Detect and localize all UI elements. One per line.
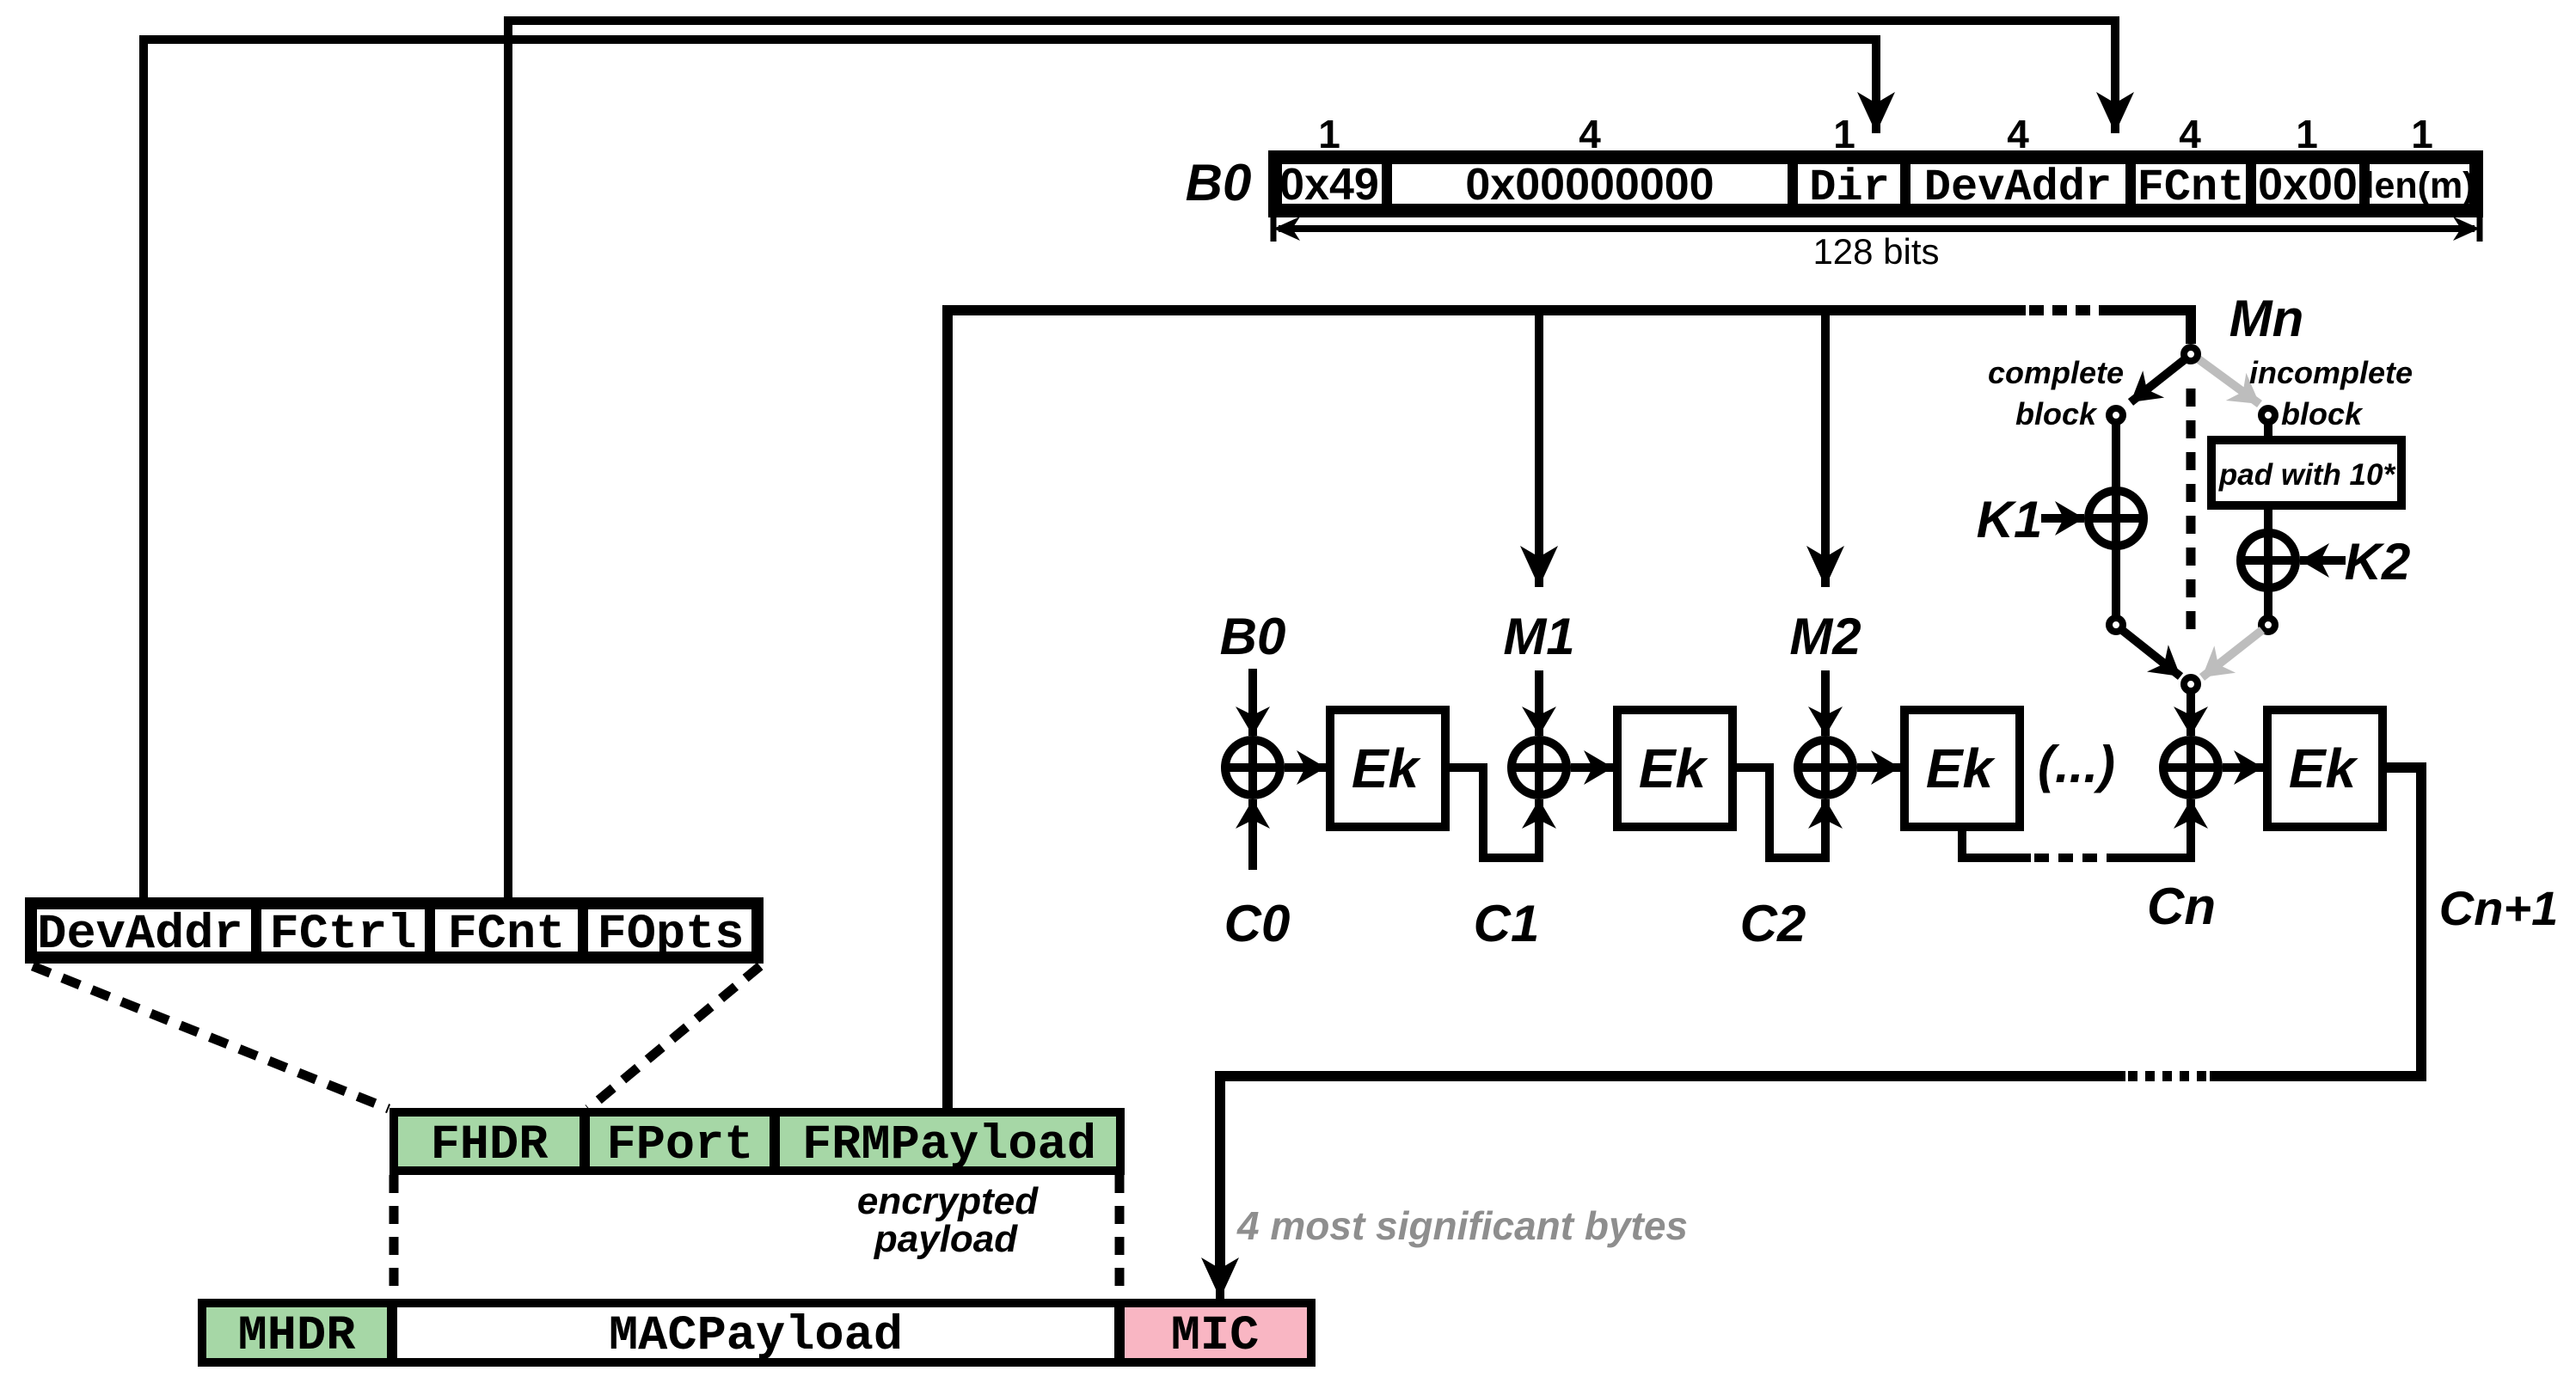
svg-text:C0: C0 — [1224, 895, 1291, 952]
B0 block outer box — [1275, 157, 2476, 211]
pad with 10* box — [2211, 440, 2401, 505]
arrow merge node into xor4 — [2187, 692, 2195, 736]
svg-text:MHDR: MHDR — [238, 1309, 357, 1364]
xor2 — [1512, 740, 1567, 795]
svg-text:M1: M1 — [1503, 608, 1574, 665]
svg-text:MACPayload: MACPayload — [609, 1309, 903, 1364]
dashed drop left — [389, 1175, 399, 1299]
arrow xor2 to Ek2 — [1571, 763, 1613, 772]
xor K1 — [2088, 491, 2144, 546]
svg-text:4: 4 — [2179, 112, 2201, 156]
branch incomplete to merge node (gray) — [2202, 630, 2262, 677]
svg-text:1: 1 — [2411, 112, 2433, 156]
feedback Cn wire Ek3 to xor4 — [1962, 827, 2031, 858]
divider FCnt|0x00 — [2246, 155, 2256, 213]
svg-text:C2: C2 — [1740, 895, 1806, 952]
distribution line right end to Mn — [2113, 310, 2191, 344]
divider FHDR|FPort — [580, 1112, 590, 1171]
xor K2 — [2241, 533, 2296, 588]
svg-text:block: block — [2015, 396, 2098, 431]
divider 0x00000000|Dir — [1788, 155, 1798, 213]
wire pad box to xor K2 — [2264, 505, 2272, 530]
svg-text:Ek: Ek — [1639, 737, 1709, 799]
dashed gap on distribution line — [2029, 305, 2115, 315]
svg-text:Ek: Ek — [1926, 737, 1996, 799]
128 bits dimension line — [1271, 217, 1277, 242]
MACPayload fields row (green) — [394, 1112, 1120, 1171]
svg-text:0x00000000: 0x00000000 — [1465, 160, 1714, 210]
svg-text:1: 1 — [1318, 112, 1340, 156]
node below K1 — [2109, 618, 2123, 632]
message distribution line — [948, 310, 2026, 1112]
svg-text:1: 1 — [2296, 112, 2318, 156]
svg-text:128 bits: 128 bits — [1812, 231, 1939, 272]
divider 0x49|0x00000000 — [1382, 155, 1392, 213]
node incomplete — [2261, 408, 2275, 422]
divider FCtrl|FCnt — [425, 902, 435, 959]
svg-text:FOpts: FOpts — [597, 908, 744, 963]
branch complete to merge node — [2122, 630, 2180, 676]
arrow C0 up into xor1 — [1248, 799, 1257, 870]
Cn+1 output wire — [2210, 768, 2421, 1076]
svg-text:4: 4 — [1579, 112, 1601, 156]
node Mn — [2184, 347, 2198, 361]
arrow M2 into xor3 — [1821, 670, 1830, 736]
CBC-MAC chain — [1220, 608, 2559, 1299]
svg-text:FRMPayload: FRMPayload — [802, 1118, 1096, 1173]
dashed expansion line left — [33, 966, 389, 1109]
cell MIC (pink) — [1124, 1307, 1307, 1358]
arrow K2 into xor — [2300, 556, 2346, 565]
PHY payload row — [202, 1303, 1311, 1362]
svg-text:K1: K1 — [1977, 491, 2043, 548]
arrow B0 into xor1 — [1248, 669, 1257, 736]
svg-text:M2: M2 — [1789, 608, 1861, 665]
svg-text:4: 4 — [2007, 112, 2029, 156]
Ek box 4 — [2267, 710, 2383, 827]
svg-text:encrypted: encrypted — [857, 1180, 1039, 1222]
svg-text:0x00: 0x00 — [2258, 160, 2358, 210]
divider 0x00|len(m) — [2359, 155, 2370, 213]
svg-text:0x49: 0x49 — [1279, 160, 1379, 210]
svg-text:block: block — [2281, 396, 2364, 431]
arrow xor4 to Ek4 — [2223, 763, 2263, 772]
svg-text:Mn: Mn — [2229, 290, 2304, 347]
arrow xor3 to Ek3 — [1857, 763, 1900, 772]
dashed selector line — [2187, 389, 2196, 643]
arrow into MIC — [1216, 1255, 1224, 1299]
bottom frame structures — [31, 902, 1311, 1364]
svg-text:4 most significant bytes: 4 most significant bytes — [1236, 1203, 1688, 1248]
wire from FCnt cell up and right to DevAddr field — [508, 21, 2115, 902]
branch Mn to incomplete block (gray) — [2195, 357, 2260, 404]
arrow M1 into xor2 — [1535, 670, 1543, 736]
dashed drop right — [1115, 1175, 1125, 1299]
divider FPort|FRMPayload — [770, 1112, 780, 1171]
svg-text:Dir: Dir — [1809, 162, 1890, 213]
arrow xor1 to Ek1 — [1285, 763, 1326, 772]
arrow down to M2 — [1821, 310, 1830, 587]
svg-text:payload: payload — [874, 1218, 1018, 1260]
merge node — [2184, 677, 2198, 691]
svg-text:FCtrl: FCtrl — [269, 908, 416, 963]
wire incomplete node to pad box — [2264, 423, 2272, 438]
wire xor K1 down to node — [2112, 549, 2120, 617]
svg-text:FCnt: FCnt — [2137, 162, 2245, 213]
Ek box 1 — [1330, 710, 1445, 827]
Ek box 3 — [1904, 710, 2020, 827]
svg-text:Ek: Ek — [1352, 737, 1422, 799]
feedback C1 wire Ek1 to xor2 — [1450, 768, 1539, 858]
Ek box 2 — [1617, 710, 1733, 827]
dashed expansion line right — [588, 966, 760, 1109]
divider MHDR|MACPayload — [387, 1303, 397, 1362]
svg-text:pad with 10*: pad with 10* — [2218, 458, 2396, 492]
svg-text:1: 1 — [1833, 112, 1855, 156]
divider DevAddr|FCtrl — [251, 902, 261, 959]
FHDR fields row — [31, 903, 757, 958]
svg-text:FPort: FPort — [606, 1118, 753, 1173]
svg-text:B0: B0 — [1220, 608, 1286, 665]
arrow down to M1 — [1535, 310, 1543, 587]
svg-text:DevAddr: DevAddr — [37, 908, 242, 963]
cell MHDR (green) — [206, 1307, 388, 1358]
svg-text:MIC: MIC — [1171, 1309, 1260, 1364]
svg-text:DevAddr: DevAddr — [1924, 162, 2112, 213]
svg-text:(...): (...) — [2038, 736, 2115, 793]
svg-text:Ek: Ek — [2289, 737, 2359, 799]
branch Mn to complete block — [2131, 357, 2188, 402]
divider Dir|DevAddr — [1900, 155, 1911, 213]
wire from DevAddr cell up and right to Dir field — [144, 40, 1876, 902]
node below K2 — [2261, 618, 2275, 632]
svg-text:Cn+1: Cn+1 — [2439, 881, 2559, 935]
svg-text:FCnt: FCnt — [448, 908, 566, 963]
svg-text:B0: B0 — [1186, 154, 1252, 211]
divider MACPayload|MIC — [1114, 1303, 1125, 1362]
svg-text:K2: K2 — [2345, 533, 2411, 590]
feedback C2 wire Ek2 to xor3 — [1737, 768, 1825, 858]
svg-text:C1: C1 — [1474, 895, 1540, 952]
xor1 — [1225, 740, 1280, 795]
wire complete node to xor K1 — [2112, 423, 2120, 488]
xor3 — [1798, 740, 1853, 795]
Mn split section — [1977, 347, 2413, 736]
svg-text:complete: complete — [1988, 355, 2124, 390]
svg-text:Cn: Cn — [2147, 878, 2216, 935]
svg-text:FHDR: FHDR — [431, 1118, 549, 1173]
svg-text:incomplete: incomplete — [2249, 355, 2413, 390]
node complete — [2109, 408, 2123, 422]
divider FCnt|FOpts — [578, 902, 588, 959]
arrow K1 into xor — [2041, 514, 2084, 523]
xor4 — [2163, 740, 2218, 795]
divider DevAddr|FCnt — [2125, 155, 2136, 213]
svg-text:len(m): len(m) — [2364, 165, 2475, 206]
wire xor K2 down to node — [2264, 591, 2272, 617]
